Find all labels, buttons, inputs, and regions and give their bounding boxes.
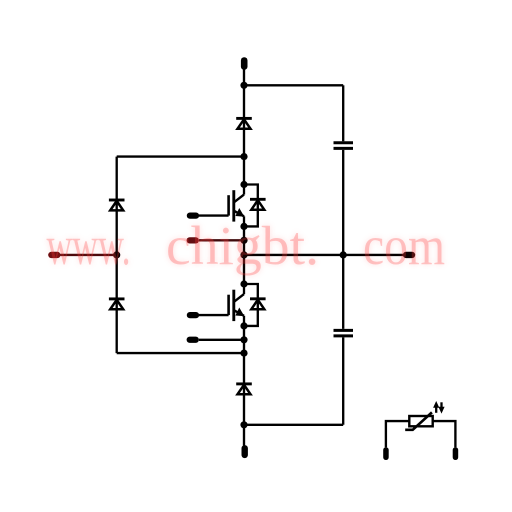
diode D5 (Q1 freewheel) wires xyxy=(244,185,258,227)
wire: thermistor right lead xyxy=(433,421,456,447)
diode D1 (top clamp) xyxy=(236,118,252,128)
wire: right rail middle xyxy=(342,150,344,329)
node: DC- junction xyxy=(240,421,247,428)
thermistor RT strike line xyxy=(405,412,432,429)
node: right rail mid xyxy=(340,251,347,258)
terminal: DC- bottom xyxy=(242,445,248,458)
node: lower link junction xyxy=(240,350,247,357)
wire: gate 1 lead xyxy=(199,214,229,216)
node: upper link junction xyxy=(240,153,247,160)
terminal: thermistor right xyxy=(453,447,459,460)
capacitor C1 plate bottom xyxy=(334,147,354,150)
wire: gate 2 lead xyxy=(199,314,229,316)
capacitor C1 plate top xyxy=(334,141,354,144)
terminal: gate 2 xyxy=(187,312,199,318)
diode D2 (left upper) xyxy=(109,200,125,210)
svg-text:www.: www. xyxy=(47,215,131,276)
node: aux emitter 2 xyxy=(240,336,247,343)
terminal: aux emitter 1 xyxy=(187,237,199,243)
wire: left rail xyxy=(116,157,118,354)
diode D5 (Q1 freewheel) xyxy=(250,199,266,209)
node: Q1 collector xyxy=(240,181,247,188)
node: Q1 emitter xyxy=(240,223,247,230)
diode D3 (left lower) xyxy=(109,299,125,309)
transistor Q2 (lower IGBT) xyxy=(229,284,244,326)
watermark www.chigbt.com blur halo xyxy=(47,215,446,276)
node: phase mid xyxy=(240,251,247,258)
terminal: gate 1 xyxy=(187,213,199,219)
wire: right rail bottom xyxy=(342,337,344,424)
wire: main bottom segment (lower emitter to DC- terminal) xyxy=(243,326,245,446)
wire: DC+ node to right rail xyxy=(244,84,343,86)
terminal: DC+ top xyxy=(241,57,248,70)
node: left rail tap xyxy=(113,251,120,258)
wire: aux emitter 2 lead xyxy=(199,339,244,341)
svg-text:com: com xyxy=(363,215,445,276)
capacitor C2 plate bottom xyxy=(334,334,354,337)
node: aux emitter 1 xyxy=(240,237,247,244)
wire: DC- node to right rail xyxy=(244,424,343,426)
thermistor RT body xyxy=(409,416,432,426)
terminal: thermistor left xyxy=(383,447,389,460)
diode D6 (Q2 freewheel) xyxy=(250,299,266,309)
wire: left input lead xyxy=(60,254,116,256)
wire: main top segment (DC+ terminal to upper collector) xyxy=(243,69,245,185)
capacitor C2 plate top xyxy=(334,329,354,332)
diode D6 (Q2 freewheel) wires xyxy=(244,284,258,326)
terminal: aux emitter 2 xyxy=(187,337,199,343)
wire: main middle segment (upper emitter to lower collector) xyxy=(243,226,245,284)
terminal: phase output xyxy=(403,252,415,258)
node: Q2 emitter xyxy=(240,322,247,329)
wire: aux emitter 1 lead xyxy=(199,239,244,241)
wire: right rail top xyxy=(342,85,344,141)
thermistor arrow down xyxy=(440,402,442,409)
diode D4 (bottom clamp) xyxy=(236,384,252,394)
terminal: left input xyxy=(48,252,60,258)
node: DC+ junction xyxy=(240,82,247,89)
transistor Q1 (upper IGBT) xyxy=(229,185,244,227)
wire: lower left link xyxy=(117,352,244,354)
node: Q2 collector xyxy=(240,280,247,287)
wire: upper left link xyxy=(117,155,244,157)
wire: thermistor left lead xyxy=(386,421,409,447)
wire: phase output xyxy=(244,254,403,256)
watermark www.chigbt.com xyxy=(47,215,446,276)
svg-text:chigbt.: chigbt. xyxy=(166,215,319,276)
thermistor arrow up xyxy=(435,405,437,413)
